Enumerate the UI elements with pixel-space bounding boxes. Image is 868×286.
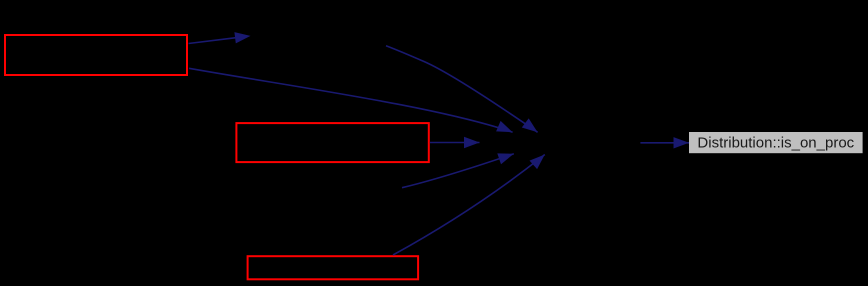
- svg-text:Distribution::is_on_proc: Distribution::is_on_proc: [697, 134, 854, 151]
